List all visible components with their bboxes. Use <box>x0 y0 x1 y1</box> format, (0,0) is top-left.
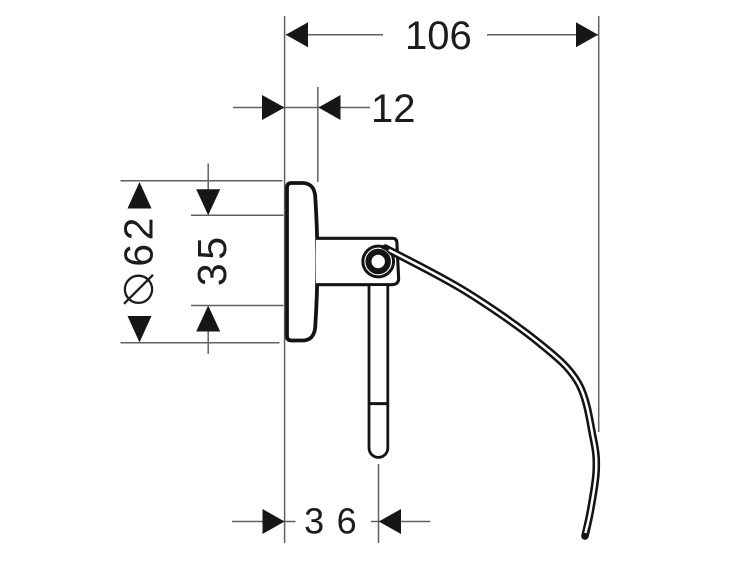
svg-text:12: 12 <box>371 87 416 131</box>
svg-text:36: 36 <box>304 501 369 542</box>
svg-text:106: 106 <box>405 14 472 58</box>
svg-text:62: 62 <box>115 214 161 267</box>
svg-text:35: 35 <box>189 233 235 286</box>
